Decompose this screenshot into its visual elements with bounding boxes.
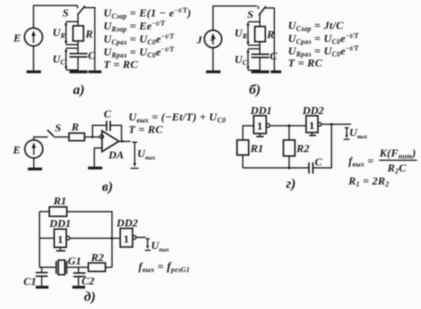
- wire R2 top lead: [288, 126, 290, 140]
- resistor R: [69, 133, 85, 141]
- svg-text:Uвых: Uвых: [349, 127, 367, 141]
- resistor R: [73, 26, 84, 41]
- wire R2 to right rail: [105, 266, 112, 268]
- ground under E: [28, 158, 42, 169]
- svg-text:R: R: [266, 29, 274, 41]
- op-amp DA: [100, 131, 119, 152]
- wire bottom rail: [243, 167, 309, 169]
- DD1 unused pin: [56, 247, 65, 251]
- svg-text:Uвых = (−Et/T) + UC0: Uвых = (−Et/T) + UC0: [129, 112, 227, 125]
- svg-text:1: 1: [124, 234, 130, 246]
- inverter DD2: [120, 228, 136, 247]
- svg-text:K(Fпит): K(Fпит): [379, 148, 417, 161]
- svg-text:UC: UC: [53, 54, 66, 67]
- voltage source E: [25, 140, 43, 158]
- ground right rail: [88, 70, 101, 73]
- voltage marker UC: [247, 49, 260, 70]
- ground under C1: [36, 286, 49, 289]
- wire crystal rail: [40, 266, 57, 268]
- ground right rail: [271, 70, 282, 73]
- svg-text:R2C: R2C: [387, 163, 407, 176]
- svg-text:R1 = 2R2: R1 = 2R2: [348, 176, 390, 189]
- capacitor C: [309, 162, 313, 173]
- capacitor C2: [73, 267, 85, 286]
- wire top rail: [33, 5, 78, 7]
- svg-text:E: E: [13, 33, 21, 45]
- capacitor C: [70, 54, 88, 57]
- switch S: [47, 130, 54, 136]
- ground under C: [70, 70, 88, 73]
- svg-text:T = RC: T = RC: [129, 124, 164, 136]
- ground opamp: [88, 167, 102, 170]
- svg-text:S: S: [63, 8, 69, 20]
- inverter DD1: [54, 229, 70, 247]
- svg-text:UR: UR: [53, 27, 66, 40]
- resistor R1: [49, 207, 67, 216]
- svg-text:R: R: [85, 29, 93, 41]
- svg-text:DD1: DD1: [250, 105, 272, 117]
- svg-text:T = RC: T = RC: [104, 59, 139, 71]
- svg-text:E: E: [12, 145, 20, 157]
- voltage marker UR: [247, 22, 260, 45]
- svg-text:1: 1: [309, 120, 315, 132]
- node output junction: [330, 123, 333, 126]
- wire left rail: [39, 212, 41, 268]
- svg-text:C: C: [104, 109, 112, 121]
- wire E to switch: [34, 137, 48, 140]
- wire switch to right rail: [265, 8, 274, 71]
- svg-text:C: C: [315, 157, 323, 169]
- wire R to C: [77, 41, 79, 53]
- node input junction: [91, 136, 93, 138]
- svg-text:б): б): [249, 83, 261, 98]
- current source J: [204, 30, 221, 47]
- switch S: [78, 6, 86, 15]
- wire switch to R: [77, 15, 79, 26]
- wire crystal to R2: [67, 266, 89, 268]
- svg-text:DD1: DD1: [49, 218, 71, 230]
- node output junction: [121, 140, 123, 142]
- wire R to C: [259, 42, 261, 54]
- svg-text:R1: R1: [250, 143, 264, 155]
- wire DD1 input from R1: [243, 126, 254, 140]
- crystal G1: [56, 260, 66, 275]
- node R2 top junction: [288, 124, 291, 127]
- formula fvyh circuit g: [349, 148, 418, 176]
- wire E to top rail: [33, 6, 35, 29]
- voltage source E: [25, 28, 43, 46]
- inverter DD2: [306, 116, 321, 133]
- voltage marker Uvyh: [145, 239, 151, 251]
- node R2 bottom junction: [288, 167, 291, 170]
- svg-text:1: 1: [58, 234, 64, 246]
- svg-text:1: 1: [257, 121, 263, 133]
- svg-text:fвых =: fвых =: [349, 156, 374, 169]
- wire R to opamp input node: [85, 136, 101, 138]
- switch S: [258, 6, 266, 15]
- svg-text:C2: C2: [82, 276, 95, 288]
- wire R1 to right rail: [67, 212, 112, 268]
- inverter DD1: [254, 116, 270, 134]
- svg-text:Uвых: Uвых: [137, 148, 155, 162]
- svg-text:DD2: DD2: [116, 218, 139, 230]
- wire J to top rail: [212, 6, 214, 30]
- svg-text:DA: DA: [108, 150, 124, 162]
- wire DD1 out to DD2 in: [70, 237, 120, 239]
- ground under C2: [72, 286, 85, 289]
- svg-text:Uвых: Uвых: [151, 240, 169, 254]
- wire R1 to bottom rail: [242, 155, 244, 168]
- resistor R1: [237, 140, 249, 155]
- svg-text:C: C: [270, 51, 278, 63]
- svg-text:г): г): [286, 177, 296, 192]
- voltage marker UC: [65, 48, 79, 70]
- wire C to ground: [77, 57, 79, 71]
- svg-text:R: R: [71, 122, 79, 134]
- capacitor C1: [36, 267, 48, 286]
- svg-text:UCзар = Jt/C: UCзар = Jt/C: [288, 20, 344, 33]
- svg-text:fвых = fрезG1: fвых = fрезG1: [139, 259, 190, 274]
- ground under E: [27, 46, 42, 72]
- svg-text:в): в): [102, 180, 113, 195]
- svg-text:S: S: [55, 123, 61, 135]
- wire output: [119, 140, 131, 142]
- svg-text:G1: G1: [68, 256, 81, 268]
- svg-text:T = RC: T = RC: [288, 58, 323, 70]
- wire switch to R: [259, 15, 261, 27]
- wire switch to R: [54, 136, 69, 138]
- svg-text:R2: R2: [90, 252, 104, 264]
- node feedback junction: [111, 237, 114, 240]
- DD2 unused pin: [309, 133, 316, 136]
- svg-text:URзар = Ee−t/T: URзар = Ee−t/T: [104, 19, 166, 33]
- svg-text:UC: UC: [235, 54, 248, 67]
- wire noninverting input to ground: [94, 148, 102, 167]
- capacitor C feedback: [107, 121, 111, 131]
- voltage marker Uvyh: [344, 128, 350, 140]
- svg-text:UR: UR: [235, 28, 248, 41]
- wire right rail to capacitor: [313, 124, 331, 168]
- svg-text:д): д): [84, 290, 96, 305]
- svg-text:UCзар = E(1 − e−t/T): UCзар = E(1 − e−t/T): [104, 6, 192, 20]
- svg-text:R1: R1: [53, 196, 67, 208]
- svg-text:C: C: [88, 50, 96, 62]
- resistor R2: [283, 140, 295, 156]
- wire DD2 output: [321, 123, 351, 125]
- svg-text:S: S: [247, 9, 253, 21]
- wire DD2 output: [136, 236, 146, 238]
- wire top rail: [213, 5, 258, 7]
- wire DD1 out to DD2 in: [270, 125, 306, 127]
- svg-text:а): а): [73, 83, 85, 98]
- wire R2 bottom lead: [288, 156, 290, 168]
- svg-text:URраз = UC0e−t/T: URраз = UC0e−t/T: [104, 45, 175, 59]
- wire C to ground: [259, 58, 261, 71]
- svg-text:J: J: [196, 35, 203, 47]
- svg-text:R2: R2: [296, 143, 310, 155]
- voltage marker Uvyh: [131, 142, 139, 168]
- wire feedback right: [111, 125, 122, 141]
- wire DD1 input: [40, 237, 55, 239]
- wire switch to right rail: [84, 8, 95, 71]
- resistor R: [255, 27, 265, 42]
- DD1 unused pin: [256, 134, 264, 137]
- wire top rail to R1: [40, 211, 50, 213]
- voltage marker UR: [65, 22, 79, 45]
- svg-text:DD2: DD2: [302, 105, 325, 117]
- resistor R2: [88, 263, 105, 272]
- capacitor C: [251, 54, 269, 57]
- wire feedback left: [93, 125, 107, 137]
- ground under J: [206, 48, 221, 72]
- ground under C: [251, 70, 269, 73]
- svg-text:C1: C1: [24, 276, 37, 288]
